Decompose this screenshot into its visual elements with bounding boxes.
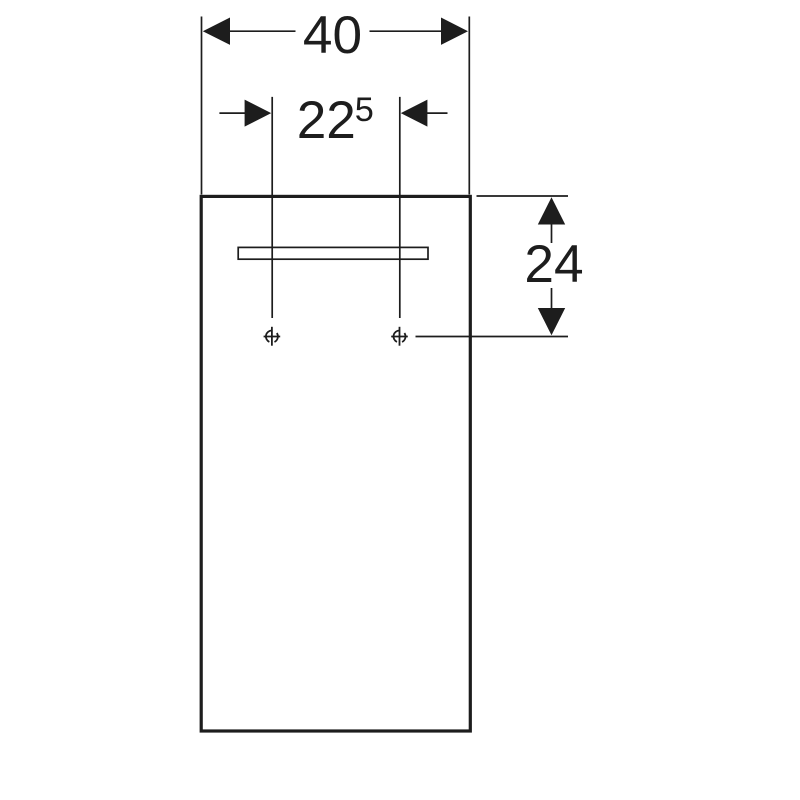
tail line right (22.5) xyxy=(427,112,448,114)
centerline left hole (22.5) xyxy=(271,97,273,318)
arrow down (24) xyxy=(538,308,565,335)
centerline right hole (22.5) xyxy=(399,97,401,318)
arrow up (24) xyxy=(538,197,565,224)
extension line bottom (24) xyxy=(416,336,569,338)
tail line left (22.5) xyxy=(219,112,245,114)
dimension line 24 lower segment xyxy=(551,288,553,308)
svg-text:40: 40 xyxy=(303,6,362,65)
cabinet outline xyxy=(201,196,470,731)
arrow right (40) xyxy=(441,18,468,45)
dimension line 40 left segment xyxy=(230,30,296,32)
dimension line 40 right segment xyxy=(370,30,442,32)
svg-text:24: 24 xyxy=(524,235,583,294)
extension line left (width 40) xyxy=(201,17,203,195)
extension line right (width 40) xyxy=(468,17,470,195)
extension line top (24) xyxy=(477,195,569,197)
arrow left (40) xyxy=(203,18,230,45)
svg-text:22: 22 xyxy=(297,91,356,150)
dimension line 24 upper segment xyxy=(551,225,553,244)
arrow right (22.5) xyxy=(401,100,428,127)
svg-text:5: 5 xyxy=(355,91,374,129)
handle slot xyxy=(238,247,428,259)
fixing point right xyxy=(391,327,408,346)
fixing point left xyxy=(264,327,281,346)
arrow left (22.5) xyxy=(245,100,272,127)
